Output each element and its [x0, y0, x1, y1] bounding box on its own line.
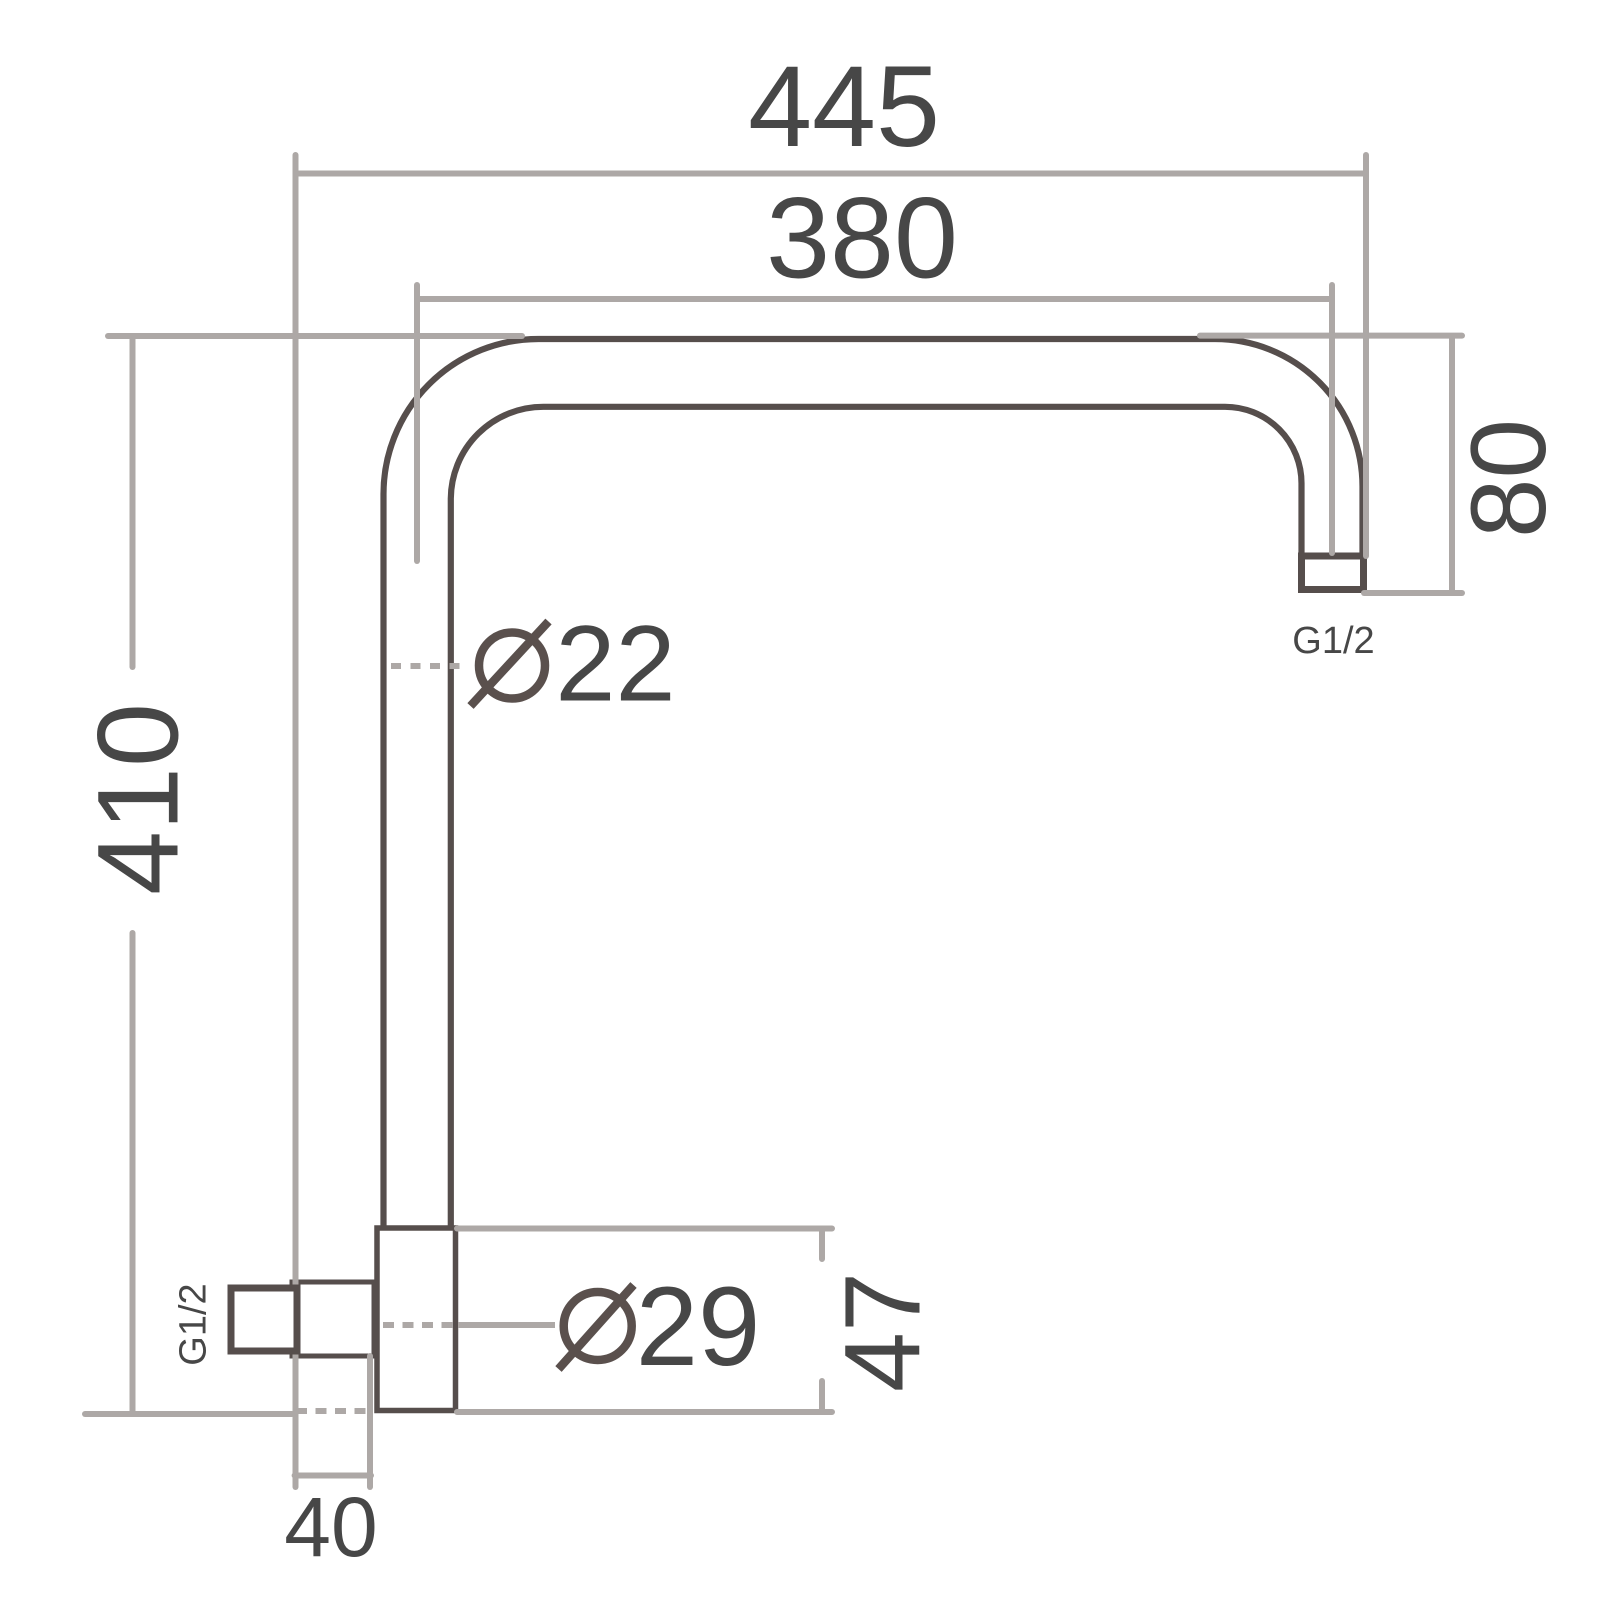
dimension 80 top extension line: [1200, 333, 1462, 339]
dimension 445 extension line left: [293, 155, 299, 1487]
wall nut: [292, 1282, 374, 1356]
dimension 47 bottom line: [457, 1381, 832, 1412]
bottom dashed centerline: [296, 1408, 372, 1414]
svg-text:29: 29: [636, 1264, 761, 1389]
dimension 445 extension line right: [1363, 155, 1369, 556]
flange dashed centerline: [383, 1322, 460, 1328]
Ø22 diameter symbol circle: [479, 633, 545, 699]
svg-text:380: 380: [766, 175, 958, 303]
dimension 40 right extension line: [367, 1356, 373, 1487]
svg-text:410: 410: [75, 703, 203, 895]
dimension 380 line: [417, 296, 1332, 302]
dimension 40 line: [295, 1473, 371, 1479]
dimension 410 top extension line: [108, 333, 522, 339]
Ø22 diameter symbol slash: [471, 622, 549, 707]
svg-text:G1/2: G1/2: [1292, 620, 1374, 662]
dimension 410 line upper segment: [130, 336, 136, 667]
svg-text:80: 80: [1448, 419, 1568, 538]
dimension 410 bottom extension line: [85, 1411, 292, 1417]
dimension 380 extension line left: [414, 285, 420, 561]
flange cylinder: [377, 1228, 456, 1411]
shower arm pipe outer outline: [383, 339, 1362, 1228]
dimension 47 top line: [457, 1229, 832, 1260]
left G1/2 square fitting: [231, 1288, 297, 1351]
svg-text:445: 445: [748, 43, 940, 171]
Ø29 leader line: [458, 1322, 555, 1328]
dimension 445 line: [296, 171, 1367, 177]
svg-text:G1/2: G1/2: [173, 1283, 215, 1365]
Ø29 diameter symbol circle: [564, 1292, 632, 1360]
Ø29 diameter symbol slash: [559, 1285, 634, 1369]
svg-text:40: 40: [284, 1480, 377, 1574]
dimension 410 line lower segment: [130, 933, 136, 1414]
svg-text:47: 47: [822, 1272, 943, 1392]
right G1/2 square fitting: [1302, 556, 1364, 590]
shower arm pipe inner outline: [451, 407, 1302, 1228]
svg-text:22: 22: [555, 603, 675, 724]
dimension 80 line: [1449, 336, 1455, 593]
dimension 80 bottom extension line: [1364, 590, 1462, 596]
Ø22 dashed leader: [391, 663, 468, 669]
dimension 380 extension line right: [1329, 285, 1335, 553]
